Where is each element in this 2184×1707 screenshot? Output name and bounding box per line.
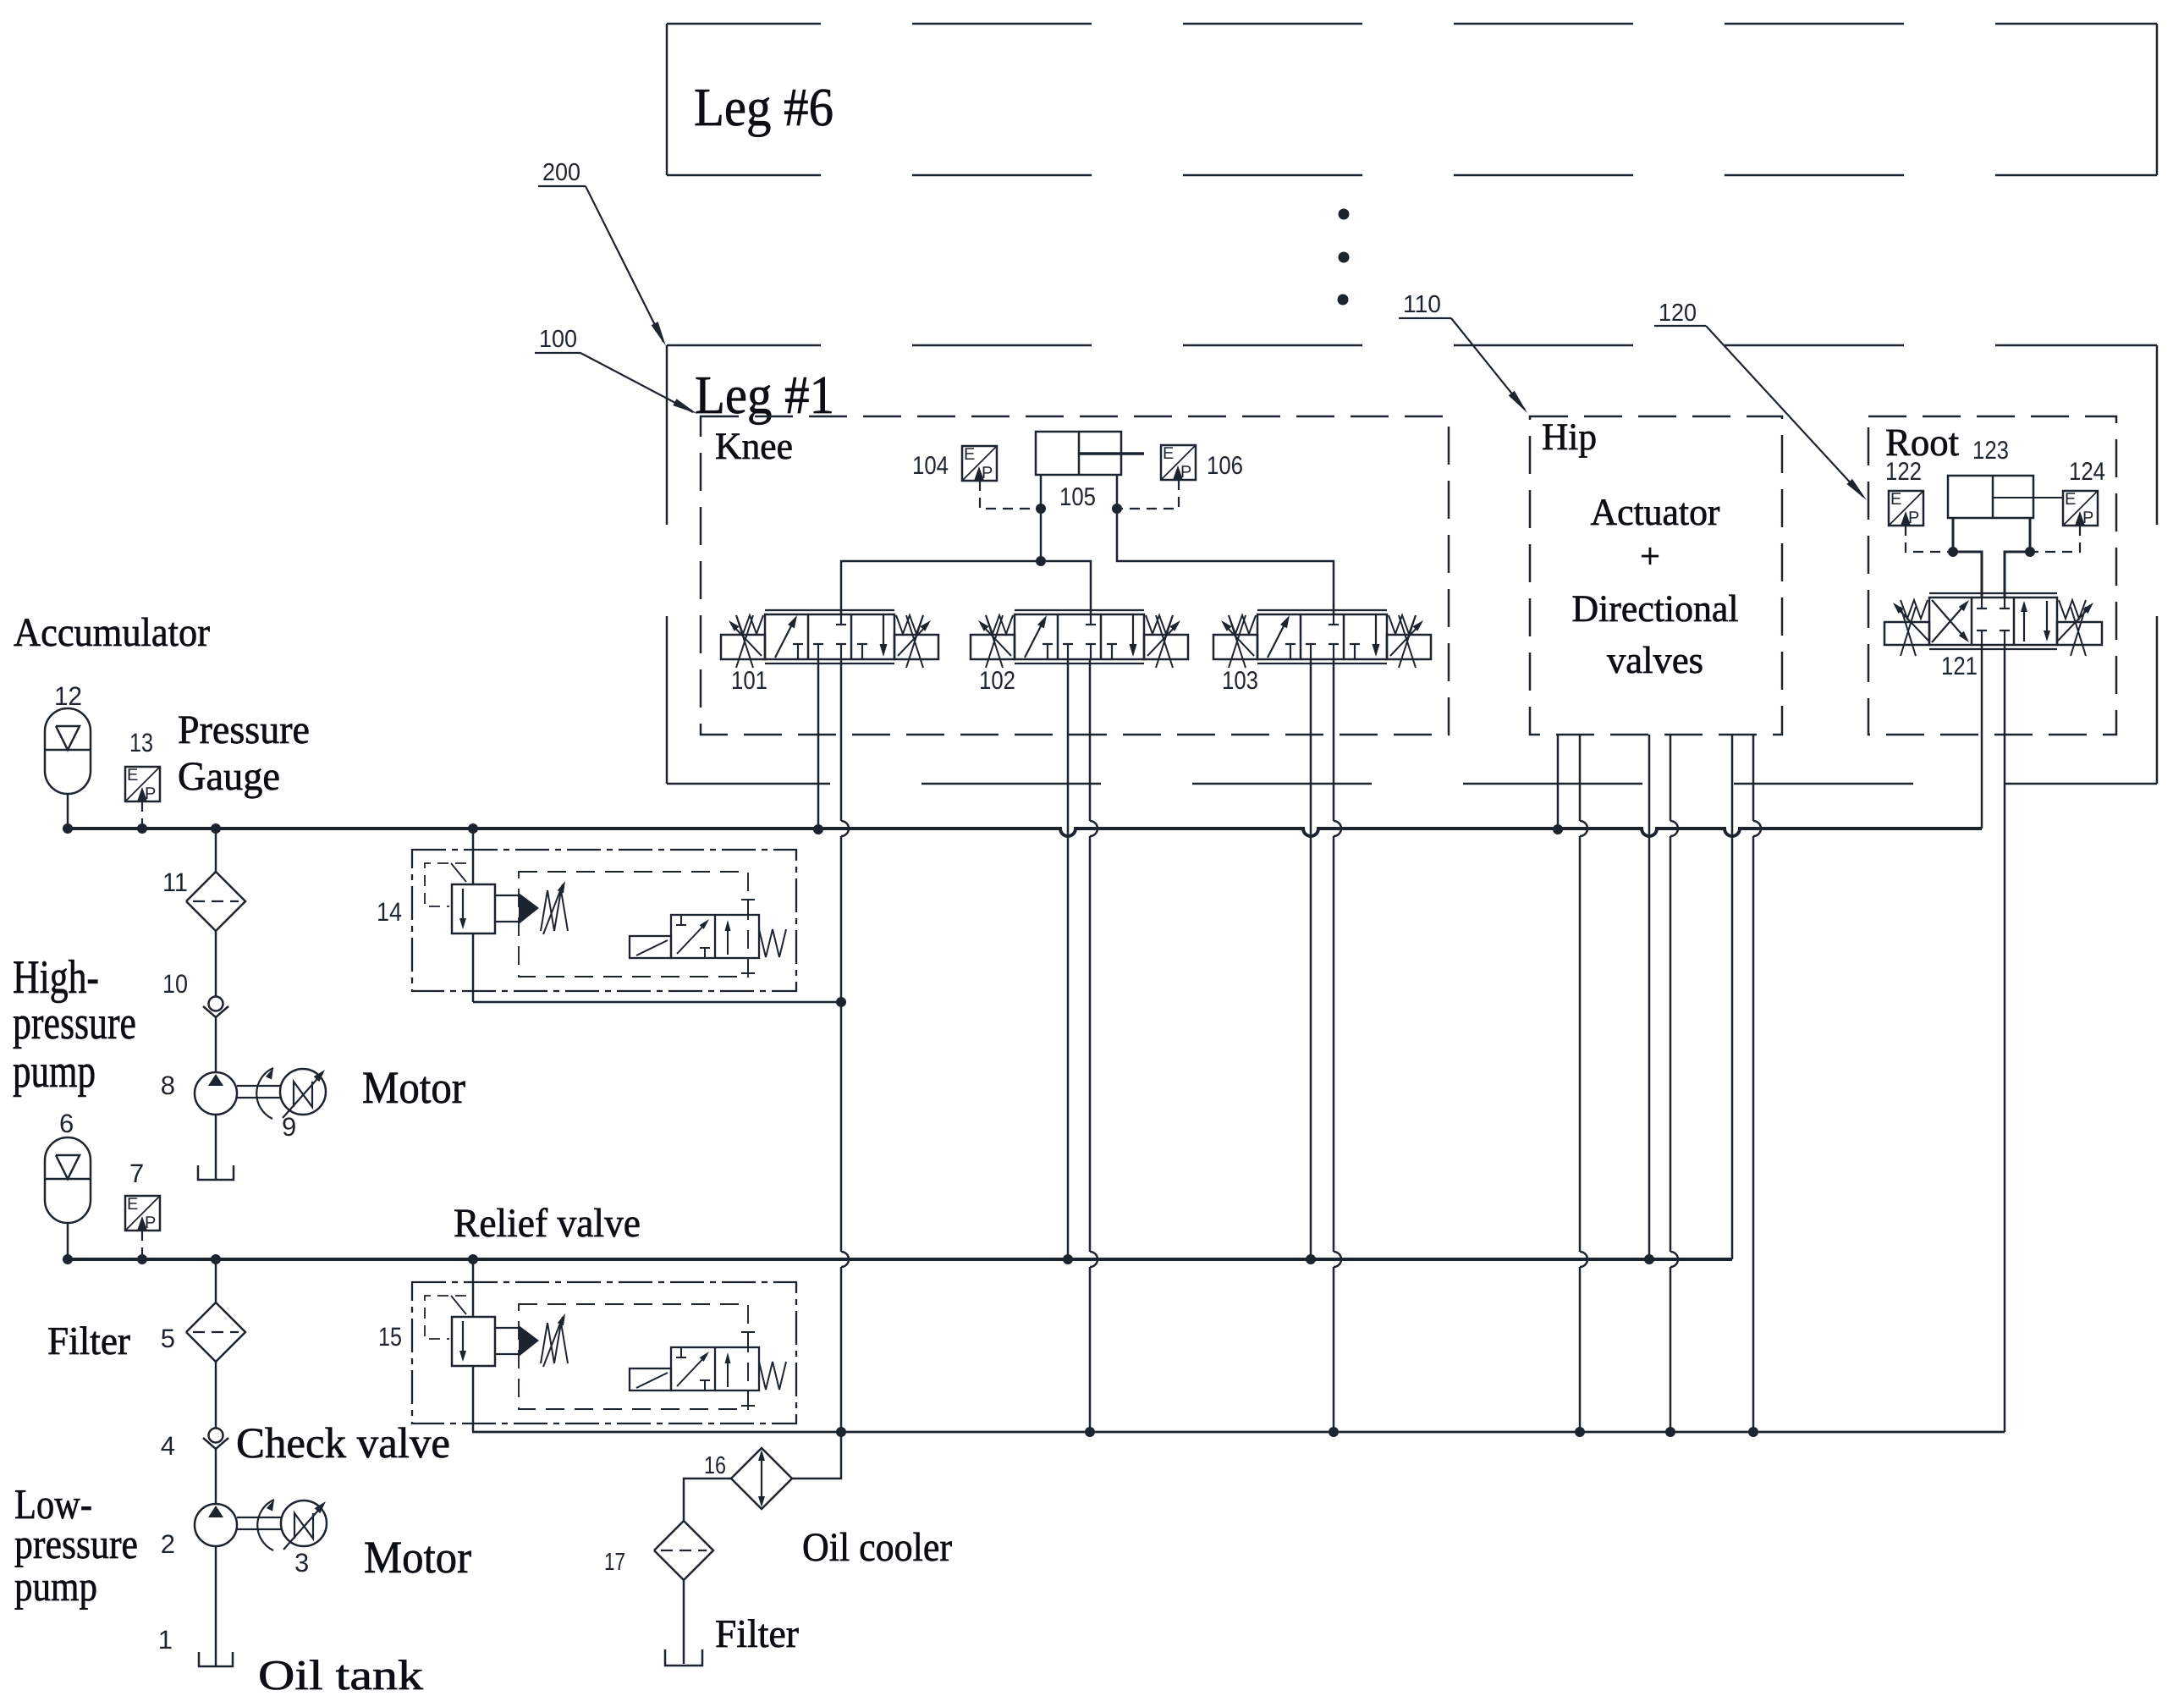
filter 5 <box>186 1302 245 1362</box>
junction dot 106-port <box>1112 504 1122 514</box>
wire v103 T-port seg2 <box>1333 836 1335 1252</box>
svg-text:valves: valves <box>1607 639 1703 681</box>
check valve 10 <box>209 997 223 1011</box>
wire pump2-tank1 <box>215 1546 217 1666</box>
svg-text:11: 11 <box>162 867 188 897</box>
tank drain wire <box>472 1431 2005 1434</box>
sensor 122 pilot line <box>1906 526 1948 552</box>
wire v101 P-port to HP bus <box>817 659 820 829</box>
wire hip4 seg2 <box>1670 836 1672 1252</box>
junction dot relief14-bus <box>468 823 478 834</box>
low-pressure bus wire <box>67 1258 1732 1261</box>
wire bus-filter11 <box>215 829 217 872</box>
wire hip3 to LP bus <box>1648 735 1651 1259</box>
svg-text:103: 103 <box>1222 667 1258 695</box>
ellipsis dot 1 <box>1339 209 1350 220</box>
junction dot hip2-drain <box>1575 1427 1585 1437</box>
wire accum12-bus <box>67 794 69 829</box>
svg-text:17: 17 <box>604 1549 625 1576</box>
high-pressure pump 8 <box>195 1072 237 1115</box>
svg-text:Actuator: Actuator <box>1591 491 1720 533</box>
accumulator 6 <box>45 1137 91 1223</box>
svg-text:121: 121 <box>1941 653 1978 680</box>
wire v102 P-port to LP bus <box>1067 659 1070 1259</box>
tank under pump 8 <box>198 1165 234 1180</box>
wire cooler-filter17 <box>684 1478 731 1522</box>
hop hip2 over LP bus <box>1580 1252 1587 1267</box>
svg-text:E: E <box>964 445 975 464</box>
svg-text:Oil cooler: Oil cooler <box>802 1525 952 1570</box>
valve 102 <box>1015 609 1144 611</box>
valve 121 <box>1929 592 2057 594</box>
svg-text:14: 14 <box>377 897 402 927</box>
wire hip2 seg3 <box>1579 1267 1582 1432</box>
svg-text:2: 2 <box>161 1529 175 1559</box>
svg-text:101: 101 <box>731 667 767 695</box>
junction dot gauge13 <box>137 823 147 834</box>
svg-text:E: E <box>1163 444 1174 463</box>
pump2 shaft <box>237 1517 281 1518</box>
motor 3 <box>281 1501 327 1546</box>
junction dot relief14 drain <box>836 997 846 1007</box>
svg-text:High-: High- <box>13 951 99 1004</box>
wire v103 T-port seg1 <box>1333 659 1335 821</box>
sensor 7 pilot wire <box>141 1231 143 1259</box>
pressure sensor 124 <box>2063 491 2098 526</box>
svg-text:Leg #6: Leg #6 <box>694 77 833 137</box>
svg-text:105: 105 <box>1059 483 1096 511</box>
junction dot sensor7 <box>137 1254 147 1264</box>
wire relief14 out <box>472 933 475 1002</box>
wire bus-relief14 <box>472 829 475 884</box>
leader 100 <box>580 353 693 412</box>
oil cooler 16 <box>731 1448 792 1509</box>
gauge 13 pilot wire <box>141 801 143 829</box>
hop v102T over LP bus <box>1090 1252 1098 1267</box>
wire bus-relief15 <box>472 1259 475 1317</box>
wire v102 T-port seg1 <box>1089 659 1092 821</box>
hop v103T over LP bus <box>1334 1252 1341 1267</box>
junction dot hip6-drain <box>1748 1427 1758 1437</box>
relief valve assembly 14 <box>412 850 796 991</box>
hop hip2 over HP bus <box>1580 821 1587 836</box>
svg-text:110: 110 <box>1403 291 1441 318</box>
svg-text:E: E <box>1890 490 1901 509</box>
svg-text:Motor: Motor <box>362 1062 465 1113</box>
svg-text:102: 102 <box>979 667 1015 695</box>
pump8 shaft <box>237 1085 280 1087</box>
svg-text:Relief valve: Relief valve <box>454 1201 641 1246</box>
leader 120 <box>1706 326 1863 497</box>
svg-text:Check valve: Check valve <box>236 1420 450 1467</box>
wire v101 T-port seg3 <box>840 1002 843 1252</box>
wire relief14 drain jog <box>473 1001 841 1004</box>
sensor 124 pilot line <box>2035 526 2080 552</box>
junction dot manifold <box>1036 556 1046 566</box>
junction dot v101-P <box>813 824 823 834</box>
wire v102 T-port seg3 <box>1089 1267 1092 1432</box>
leader 110 <box>1451 318 1525 410</box>
wire filter17-tank <box>683 1580 685 1664</box>
svg-text:+: + <box>1640 537 1660 576</box>
motor 9 <box>280 1069 326 1115</box>
svg-text:200: 200 <box>542 159 580 186</box>
junction dot v101T-drain <box>836 1427 846 1437</box>
ellipsis dot 3 <box>1338 295 1349 306</box>
hop v101T over HP bus <box>841 821 849 836</box>
svg-text:15: 15 <box>378 1322 402 1352</box>
wire v101 T-port seg1 <box>840 659 843 821</box>
svg-text:106: 106 <box>1207 452 1243 480</box>
high-pressure bus wire <box>67 829 1982 836</box>
cylinder 105 body <box>1036 432 1121 475</box>
wire relief15 out <box>472 1366 475 1432</box>
svg-text:Motor: Motor <box>364 1532 471 1583</box>
wire v101 T-port seg2 <box>840 836 843 1002</box>
junction dot v102-P <box>1063 1254 1073 1264</box>
pressure sensor 104 <box>962 446 997 481</box>
hop hip6 over HP bus <box>1753 821 1761 836</box>
valve 103 <box>1257 609 1387 611</box>
wire hip5 to LP bus end <box>1731 735 1734 1259</box>
svg-text:pressure: pressure <box>14 1520 138 1567</box>
svg-text:Gauge: Gauge <box>178 754 280 799</box>
svg-text:E: E <box>127 766 138 785</box>
svg-text:10: 10 <box>162 969 188 999</box>
hop v103T over HP bus <box>1334 821 1341 836</box>
wire hip6 seg2 <box>1752 836 1755 1432</box>
junction dot v102T-drain <box>1085 1427 1095 1437</box>
junction dot hip1 <box>1553 824 1563 834</box>
svg-text:5: 5 <box>161 1324 175 1353</box>
junction dot v103T-drain <box>1329 1427 1339 1437</box>
svg-text:pressure: pressure <box>13 997 136 1049</box>
wire check4-pump2 <box>215 1449 217 1505</box>
svg-text:Directional: Directional <box>1572 587 1739 630</box>
svg-text:7: 7 <box>129 1159 144 1188</box>
low-pressure pump 2 <box>195 1504 237 1546</box>
junction dot 124-port <box>2025 547 2035 557</box>
svg-text:E: E <box>2065 490 2076 509</box>
junction dot accum12 <box>63 823 73 834</box>
pressure sensor 106 <box>1161 445 1196 480</box>
wire hip2 seg1 <box>1579 735 1582 821</box>
accumulator 12 <box>45 708 91 794</box>
oil tank 1 <box>199 1652 233 1666</box>
tank under filter 17 <box>665 1649 702 1666</box>
svg-text:13: 13 <box>129 728 153 757</box>
filter 11 <box>186 872 245 931</box>
svg-text:E: E <box>127 1195 138 1214</box>
hop v102T over HP bus <box>1090 821 1098 836</box>
pressure gauge 13 <box>125 767 160 801</box>
hop hip4 over LP bus <box>1670 1252 1678 1267</box>
svg-text:Filter: Filter <box>715 1612 799 1656</box>
cylinder 123 body <box>1948 476 2033 518</box>
wire v101 T-port seg4 <box>840 1267 843 1432</box>
svg-text:Pressure: Pressure <box>178 708 310 752</box>
svg-text:Hip: Hip <box>1542 416 1597 458</box>
wire filter5-check4 <box>215 1362 217 1429</box>
svg-text:8: 8 <box>161 1071 175 1100</box>
cylinder 105 rod <box>1079 452 1144 455</box>
pressure sensor 7 <box>125 1196 160 1231</box>
junction dot hip3 <box>1644 1254 1654 1264</box>
filter 17 <box>654 1521 713 1580</box>
junction dot v103-P <box>1306 1254 1316 1264</box>
svg-text:Oil tank: Oil tank <box>258 1651 423 1699</box>
wire v102 T-port seg2 <box>1089 836 1092 1252</box>
svg-text:100: 100 <box>539 326 577 353</box>
svg-text:Filter: Filter <box>47 1319 130 1363</box>
svg-text:124: 124 <box>2069 458 2105 486</box>
sensor 106 pilot line <box>1122 480 1179 509</box>
leader 200 <box>586 186 663 342</box>
wire hip1 to HP bus <box>1557 735 1560 829</box>
wire hip4 seg3 <box>1670 1267 1672 1432</box>
valve 101 <box>765 609 894 611</box>
svg-text:Knee: Knee <box>715 425 793 467</box>
check valve 4 <box>209 1429 223 1443</box>
svg-text:16: 16 <box>704 1452 726 1479</box>
wire v121-left to HP bus corner <box>1981 645 1983 829</box>
svg-text:6: 6 <box>59 1109 74 1138</box>
wire v121-right to drain corner <box>2004 645 2006 1432</box>
wire drain-cooler <box>792 1432 841 1478</box>
wire accum6-bus <box>67 1223 69 1259</box>
wire hip4 seg1 <box>1670 735 1672 821</box>
Leg #6 subsystem box (200) <box>667 23 2157 25</box>
wire filter11-check10 <box>215 931 217 997</box>
Knee compartment box <box>701 416 1449 735</box>
svg-text:3: 3 <box>294 1548 309 1578</box>
svg-text:pump: pump <box>13 1045 96 1098</box>
Root compartment box (120) <box>1868 416 2116 735</box>
junction dot hip4-drain <box>1665 1427 1675 1437</box>
junction dot lp-branch <box>211 1254 221 1264</box>
wire pump8-tank <box>215 1115 217 1180</box>
svg-text:12: 12 <box>54 681 82 711</box>
ellipsis dot 2 <box>1339 252 1350 263</box>
A-line manifold wire <box>841 561 1091 614</box>
wire v103 T-port seg3 <box>1333 1267 1335 1432</box>
svg-text:120: 120 <box>1659 300 1697 327</box>
Leg #1 subsystem box (100) <box>667 344 2157 347</box>
Hip compartment box <box>1530 416 1782 735</box>
cylinder 105 left port wire <box>1040 475 1042 561</box>
sensor 104 pilot line <box>980 481 1036 509</box>
wire bus-filter5 <box>215 1259 217 1302</box>
cyl123 right port wire <box>2005 518 2030 597</box>
svg-text:123: 123 <box>1972 437 2009 465</box>
svg-text:1: 1 <box>158 1625 173 1655</box>
svg-text:122: 122 <box>1885 458 1922 486</box>
junction dot 122-port <box>1948 547 1958 557</box>
svg-text:104: 104 <box>912 452 949 480</box>
hop v101T over LP bus <box>841 1252 849 1267</box>
wire hip6 seg1 <box>1752 735 1755 821</box>
cylinder 105 right port wire <box>1117 475 1334 614</box>
svg-text:pump: pump <box>14 1562 97 1610</box>
wire check10-pump8 <box>215 1017 217 1073</box>
svg-text:4: 4 <box>161 1431 175 1461</box>
junction dot accum6 <box>63 1254 73 1264</box>
pressure sensor 122 <box>1889 491 1923 526</box>
svg-text:9: 9 <box>282 1112 296 1142</box>
junction dot hp-branch <box>211 823 221 834</box>
junction dot 104-port <box>1036 504 1046 514</box>
hop hip4 over HP bus <box>1670 821 1678 836</box>
svg-text:Accumulator: Accumulator <box>14 610 210 655</box>
cyl123 left port wire <box>1953 518 1982 597</box>
relief valve assembly 15 <box>412 1282 796 1423</box>
wire hip2 seg2 <box>1579 836 1582 1252</box>
wire v103 P-port to LP bus <box>1310 659 1312 1259</box>
cylinder 123 rod <box>1993 497 2062 498</box>
junction dot relief15-bus <box>468 1254 478 1264</box>
